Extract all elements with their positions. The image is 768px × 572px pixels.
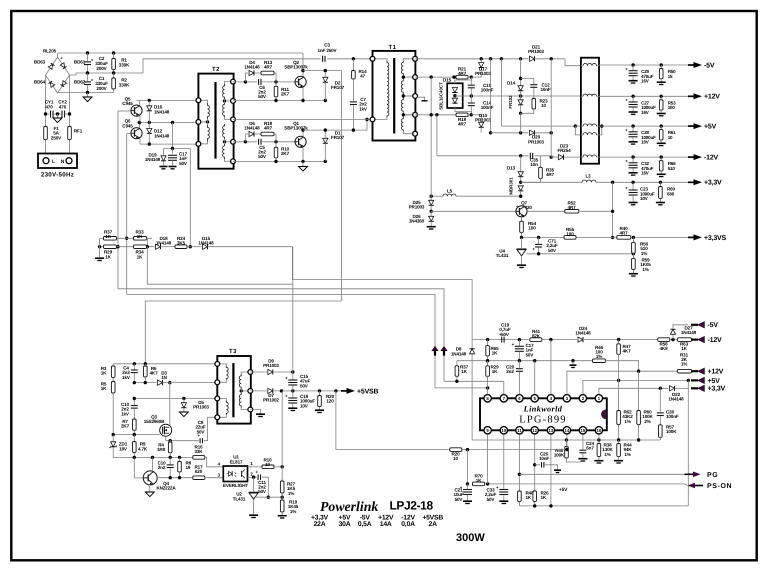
wire [281, 493, 283, 500]
winding T3 pri a [226, 366, 228, 380]
wire [273, 390, 344, 392]
resistor R9 [133, 440, 137, 455]
capacitor C7 [350, 102, 357, 105]
junction [148, 142, 151, 145]
svg-text:L5: L5 [447, 189, 453, 194]
wire [456, 376, 458, 381]
wire [417, 97, 425, 100]
wire [599, 156, 688, 158]
wire [503, 434, 505, 489]
junction [470, 75, 473, 78]
wire [303, 129, 367, 131]
wire [245, 134, 248, 142]
junction [182, 397, 185, 400]
wire [352, 79, 354, 101]
wire [435, 387, 488, 389]
wire [672, 334, 674, 339]
terminal T1-R3 [413, 94, 418, 99]
svg-text:22A: 22A [314, 521, 326, 528]
junction [86, 91, 89, 94]
junction [486, 338, 489, 341]
capacitor C19 [499, 332, 504, 343]
wire [659, 437, 661, 440]
wire [341, 71, 343, 301]
wire [455, 77, 471, 84]
svg-text:R4182K: R4182K [532, 329, 541, 339]
junction [274, 160, 277, 163]
wire [618, 340, 620, 344]
wire [415, 114, 456, 116]
wire [87, 85, 89, 92]
junction [660, 155, 663, 158]
wire [632, 107, 634, 111]
junction [116, 245, 119, 248]
junction [611, 181, 614, 184]
wire [166, 440, 199, 442]
wire [87, 53, 89, 61]
terminal T2-L1 [196, 98, 201, 103]
diode D27 [670, 329, 675, 334]
resistor R24 [175, 245, 187, 249]
wire [262, 141, 295, 143]
svg-text:C1210nF: C1210nF [540, 83, 550, 93]
capacitor C6 [259, 79, 261, 85]
capacitor C2 [84, 58, 94, 65]
transformer T3 [217, 356, 251, 424]
ground R53 [657, 114, 666, 116]
wire [112, 393, 114, 435]
winding T1 sec 2 [401, 79, 403, 94]
junction [178, 476, 181, 479]
svg-text:T3: T3 [229, 348, 237, 355]
wire [518, 372, 520, 394]
wire [117, 111, 119, 289]
node PG [685, 472, 701, 478]
winding T2 primary b [208, 125, 210, 141]
node output +3,3Vb [691, 385, 705, 392]
wire [273, 371, 293, 373]
capacitor C19s [468, 85, 475, 88]
junction [168, 381, 171, 384]
winding T2 sec d [223, 144, 225, 159]
wire [487, 381, 489, 394]
resistor R23 [532, 97, 536, 112]
resistor R21 [456, 75, 468, 79]
junction [519, 181, 522, 184]
wire [302, 161, 304, 166]
wire [292, 391, 294, 398]
wire [618, 440, 620, 444]
wire [522, 236, 617, 238]
svg-text:D14: D14 [507, 81, 516, 86]
svg-text:+5V: +5V [708, 378, 721, 385]
junction [112, 51, 115, 54]
junction [687, 379, 690, 382]
wire [403, 75, 415, 77]
wire [179, 472, 181, 478]
resistor R56 [632, 240, 636, 255]
junction [453, 94, 456, 97]
junction [430, 113, 433, 116]
wire [292, 372, 294, 380]
wire [431, 195, 443, 197]
wire [327, 58, 372, 60]
junction [402, 94, 405, 97]
wire [415, 58, 528, 60]
node output +12Vb [691, 368, 705, 375]
wire [520, 113, 522, 133]
junction [133, 397, 136, 400]
wire [566, 434, 568, 449]
winding T3 sec a [239, 374, 241, 389]
wire [233, 160, 325, 162]
resistor R18 [456, 113, 468, 117]
resistor R4 [168, 440, 172, 455]
junction [402, 75, 405, 78]
resistor R70 [473, 482, 485, 486]
wire [437, 155, 529, 157]
svg-text:R524R7: R524R7 [568, 201, 577, 211]
svg-text:BD62: BD62 [74, 80, 86, 85]
junction [617, 438, 620, 441]
junction [301, 99, 304, 102]
wire [638, 425, 640, 441]
junction [519, 94, 522, 97]
svg-text:+: + [625, 128, 628, 133]
wire [521, 109, 534, 113]
junction [466, 482, 469, 485]
resistor R8 [178, 460, 182, 475]
wire [430, 211, 432, 216]
svg-text:C171nF50V: C171nF50V [526, 343, 535, 357]
svg-text:BD61: BD61 [74, 60, 86, 65]
svg-text:15: 15 [581, 428, 586, 433]
resistor R53 [659, 98, 663, 112]
svg-text:+: + [496, 485, 499, 490]
wire [250, 390, 266, 392]
connector AC input [38, 154, 77, 169]
wire [581, 125, 583, 127]
capacitor C23 [625, 186, 637, 195]
svg-text:D31N: D31N [161, 371, 167, 381]
wire [275, 158, 277, 162]
wire [302, 53, 304, 71]
junction [631, 155, 634, 158]
wire [147, 247, 292, 285]
junction [240, 389, 243, 392]
wire [518, 340, 520, 346]
wire [415, 76, 456, 78]
wire [597, 134, 600, 136]
wire [133, 430, 135, 434]
wire [144, 364, 146, 366]
wire [632, 168, 634, 172]
wire [281, 512, 283, 515]
junction [125, 237, 128, 240]
svg-text:470: 470 [59, 104, 67, 109]
wire [444, 380, 504, 382]
wire [565, 59, 581, 66]
wire [487, 356, 489, 361]
wire [430, 196, 432, 200]
svg-text:EVERLIGHT: EVERLIGHT [223, 483, 248, 488]
wire [538, 237, 540, 243]
wire [99, 238, 101, 246]
junction [455, 380, 458, 383]
wire [241, 372, 250, 374]
ground R59 [629, 274, 638, 276]
transistor Q2 [295, 76, 306, 87]
junction [470, 94, 473, 97]
resistor R29 [104, 245, 117, 249]
wire [113, 434, 160, 436]
junction [519, 57, 522, 60]
wire [254, 496, 283, 498]
wire [660, 126, 662, 130]
winding [387, 61, 389, 118]
wire [163, 161, 165, 166]
wire [430, 221, 432, 226]
junction [430, 195, 433, 198]
svg-text:R584K8: R584K8 [660, 342, 669, 352]
wire [470, 96, 472, 102]
wire [673, 325, 688, 330]
junction [68, 112, 71, 115]
ground R61 [657, 143, 666, 145]
junction [486, 386, 489, 389]
svg-text:R20120: R20120 [326, 394, 335, 404]
junction [659, 181, 662, 184]
ground D26 [427, 227, 436, 229]
winding T1 sec 1 [401, 61, 403, 75]
wire [581, 65, 583, 67]
capacitor C4 [131, 370, 138, 373]
wire [133, 457, 135, 478]
pin 15 [579, 427, 586, 434]
wire [112, 364, 114, 366]
resistor R69 [659, 185, 663, 201]
junction [660, 95, 663, 98]
wire [467, 484, 469, 489]
svg-text:LPJ2-18: LPJ2-18 [390, 499, 434, 513]
junction [631, 181, 634, 184]
wire [632, 137, 634, 141]
junction [660, 124, 663, 127]
capacitor C13 [167, 465, 174, 468]
wire [148, 484, 150, 491]
ground R44 [614, 461, 623, 463]
terminal T3-R1 [248, 370, 253, 375]
junction [500, 57, 503, 60]
wire [57, 53, 59, 57]
svg-text:+12V: +12V [708, 369, 724, 376]
svg-text:C202n2: C202n2 [506, 365, 515, 375]
svg-text:230V-50Hz: 230V-50Hz [41, 172, 74, 179]
capacitor C15 [285, 376, 297, 385]
transistor Q7 [516, 206, 527, 217]
svg-text:+: + [625, 159, 628, 164]
svg-text:C246n7: C246n7 [586, 441, 595, 451]
wire [58, 92, 61, 95]
capacitor C33 [496, 485, 508, 494]
wire [303, 70, 342, 72]
pin 11 [516, 427, 523, 434]
diode D17 [479, 63, 484, 68]
resistor R27 [280, 479, 284, 495]
wire [430, 205, 432, 211]
winding T3 sec b [239, 393, 241, 408]
wire [660, 96, 662, 100]
wire [152, 457, 154, 471]
pin 5 [531, 395, 538, 402]
wire [112, 378, 114, 382]
pin 2 [579, 395, 586, 402]
ground D5 [179, 412, 188, 417]
svg-text:+: + [625, 98, 628, 103]
junction [486, 359, 489, 362]
diode D14a [518, 86, 523, 91]
resistor R35 [539, 165, 543, 180]
resistor R62 [617, 409, 621, 427]
transistor Q5 [131, 105, 142, 116]
junction [402, 113, 405, 116]
wire [241, 390, 250, 392]
wire [675, 387, 689, 389]
wire [324, 82, 326, 100]
wire [225, 141, 234, 143]
svg-text:+: + [285, 394, 288, 399]
wire [275, 142, 277, 148]
wire [169, 441, 171, 442]
resistor R33 [134, 237, 147, 241]
wire [139, 138, 141, 144]
wire [455, 107, 471, 115]
svg-text:13: 13 [549, 428, 554, 433]
wire [403, 115, 415, 117]
wire [187, 246, 202, 248]
wire [103, 237, 152, 239]
wire [225, 100, 234, 102]
resistor R61 [659, 128, 663, 142]
wire [248, 466, 263, 468]
shunt regulator U2 TL431 [249, 492, 259, 514]
ground [95, 258, 104, 260]
svg-text:+3,3V: +3,3V [708, 386, 726, 393]
resistor R16 [193, 456, 205, 460]
svg-text:Powerlink: Powerlink [320, 499, 378, 514]
junction [611, 210, 614, 213]
wire [127, 294, 435, 388]
pin 6 [516, 395, 523, 402]
diode D19 [161, 156, 166, 161]
wire [597, 65, 600, 67]
svg-text:FR102: FR102 [508, 95, 513, 109]
wire [324, 143, 326, 161]
junction [617, 338, 620, 341]
resistor R17 [193, 476, 205, 480]
junction [470, 113, 473, 116]
wire [631, 236, 688, 238]
wire [148, 133, 150, 144]
wire [534, 434, 536, 491]
junction [291, 370, 294, 373]
wire [165, 436, 167, 441]
wire [599, 125, 688, 127]
wire [225, 82, 234, 84]
wire [487, 434, 489, 484]
junction [533, 504, 536, 507]
wire [133, 435, 135, 442]
wire [45, 75, 47, 127]
svg-text:SBL16C40CT: SBL16C40CT [439, 82, 444, 110]
junction [659, 387, 662, 390]
wire [144, 377, 146, 383]
junction [519, 195, 522, 198]
wire [45, 140, 47, 155]
wire [373, 118, 388, 120]
resistor R26 [533, 489, 537, 504]
wire [572, 361, 574, 365]
wire [618, 354, 620, 380]
wire [480, 127, 482, 133]
capacitor C12 [530, 85, 537, 88]
junction [252, 476, 255, 479]
svg-text:+5V: +5V [559, 487, 568, 493]
wire [520, 191, 522, 196]
wire [596, 181, 688, 183]
wire [233, 141, 257, 143]
wire [208, 246, 293, 248]
junction [324, 69, 327, 72]
wire [581, 134, 583, 136]
winding T2 primary a [208, 103, 210, 119]
wire [660, 171, 662, 174]
svg-text:R404R7: R404R7 [620, 226, 629, 236]
wire [471, 279, 473, 339]
rectifier D15 SBL16C40CT [447, 83, 463, 108]
wire [660, 79, 662, 82]
junction [301, 160, 304, 163]
svg-text:470: 470 [45, 104, 53, 109]
wire [302, 71, 304, 77]
svg-text:RF1: RF1 [74, 129, 83, 134]
wire [241, 408, 250, 410]
wire [632, 270, 634, 274]
diode D2 [323, 77, 328, 82]
wire [113, 456, 193, 458]
node output -12Vb [691, 336, 705, 343]
wire [632, 157, 634, 162]
winding T2 sec a [223, 84, 225, 99]
resistor R59 [632, 256, 636, 271]
capacitor C11 [256, 469, 261, 480]
wire [632, 65, 634, 70]
ground R50 [657, 82, 666, 84]
winding T1 sec 3 [401, 98, 403, 113]
wire [487, 361, 489, 366]
junction [519, 77, 522, 80]
pin 12 [531, 427, 538, 434]
svg-text:-12V: -12V [708, 337, 723, 344]
wire [579, 210, 613, 212]
junction [637, 370, 640, 373]
wire [403, 96, 415, 98]
wire [113, 89, 115, 93]
wire [139, 123, 141, 129]
wire [352, 59, 354, 71]
wire [224, 139, 226, 144]
capacitor C71 [532, 244, 542, 251]
